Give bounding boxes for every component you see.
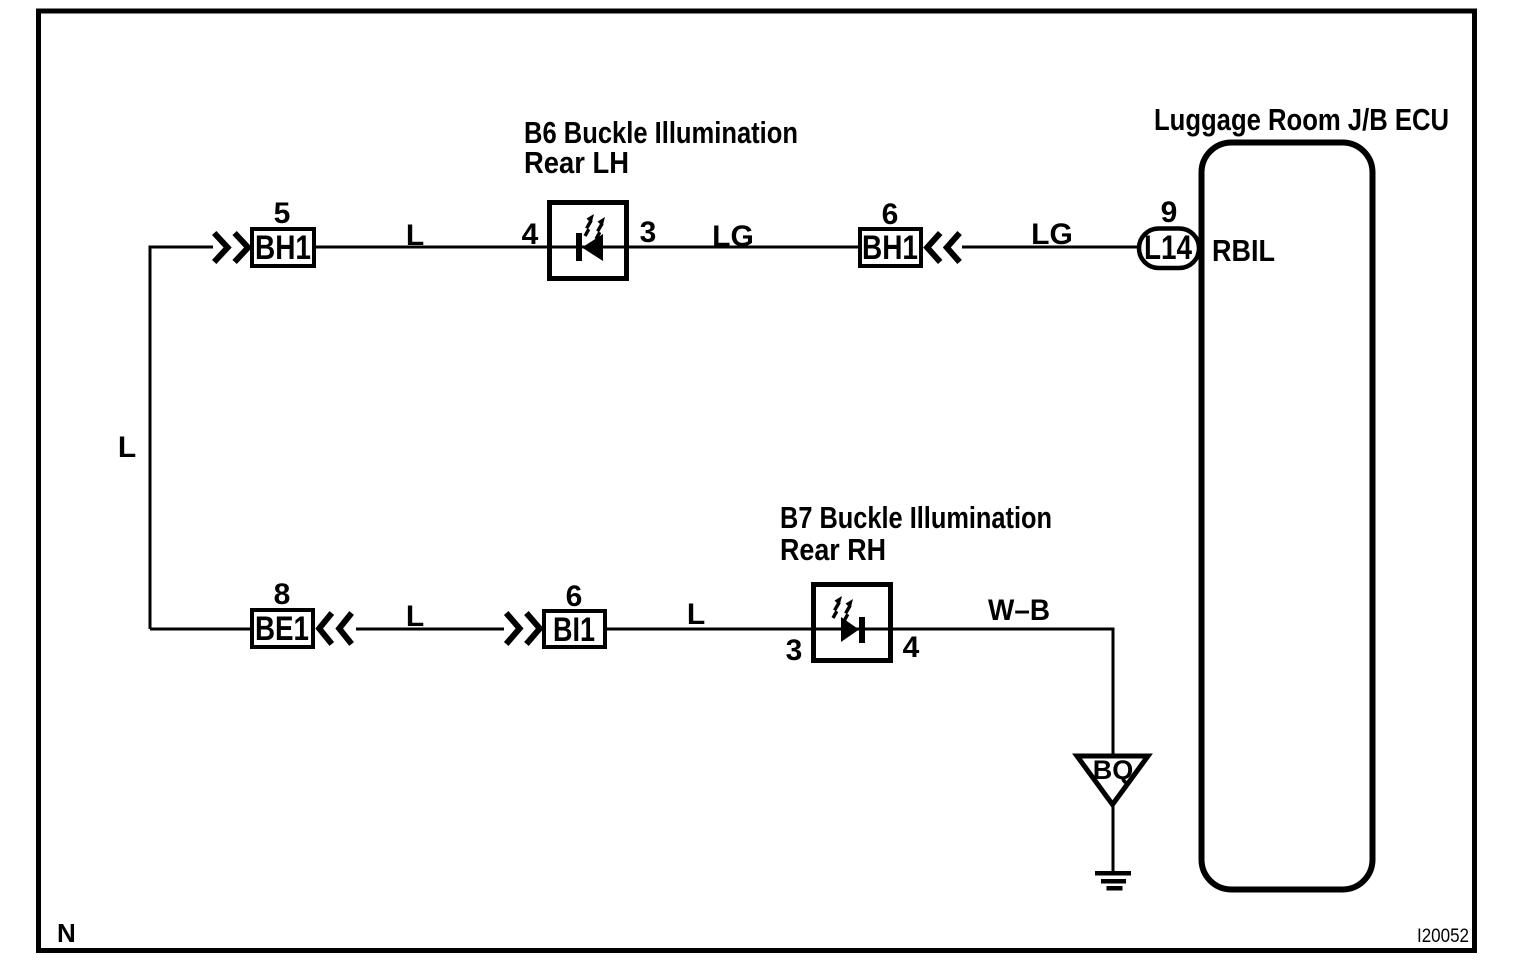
svg-text:L: L bbox=[406, 219, 424, 252]
svg-text:3: 3 bbox=[786, 634, 803, 667]
svg-text:W–B: W–B bbox=[988, 594, 1050, 627]
svg-text:BQ: BQ bbox=[1093, 755, 1134, 785]
svg-text:L: L bbox=[118, 431, 136, 464]
svg-text:BH1: BH1 bbox=[255, 229, 311, 267]
svg-text:Rear RH: Rear RH bbox=[780, 532, 886, 567]
svg-text:Rear LH: Rear LH bbox=[524, 145, 629, 180]
svg-text:6: 6 bbox=[882, 198, 899, 231]
svg-text:B7 Buckle Illumination: B7 Buckle Illumination bbox=[780, 500, 1052, 535]
svg-text:LG: LG bbox=[712, 220, 754, 253]
svg-text:Luggage Room J/B ECU: Luggage Room J/B ECU bbox=[1154, 102, 1449, 137]
svg-text:RBIL: RBIL bbox=[1212, 233, 1275, 268]
svg-text:6: 6 bbox=[566, 580, 583, 613]
svg-text:9: 9 bbox=[1161, 196, 1178, 229]
svg-text:L14: L14 bbox=[1144, 229, 1192, 267]
svg-text:4: 4 bbox=[522, 218, 539, 251]
svg-text:BH1: BH1 bbox=[862, 229, 918, 267]
svg-text:N: N bbox=[57, 918, 76, 948]
svg-text:5: 5 bbox=[274, 197, 291, 230]
svg-text:L: L bbox=[406, 600, 424, 633]
svg-text:LG: LG bbox=[1031, 218, 1073, 251]
svg-text:L: L bbox=[687, 598, 705, 631]
svg-text:I20052: I20052 bbox=[1417, 926, 1469, 947]
svg-text:BE1: BE1 bbox=[255, 610, 309, 648]
svg-text:3: 3 bbox=[640, 216, 657, 249]
svg-text:BI1: BI1 bbox=[553, 611, 595, 649]
svg-text:4: 4 bbox=[903, 631, 920, 664]
svg-text:8: 8 bbox=[274, 578, 291, 611]
